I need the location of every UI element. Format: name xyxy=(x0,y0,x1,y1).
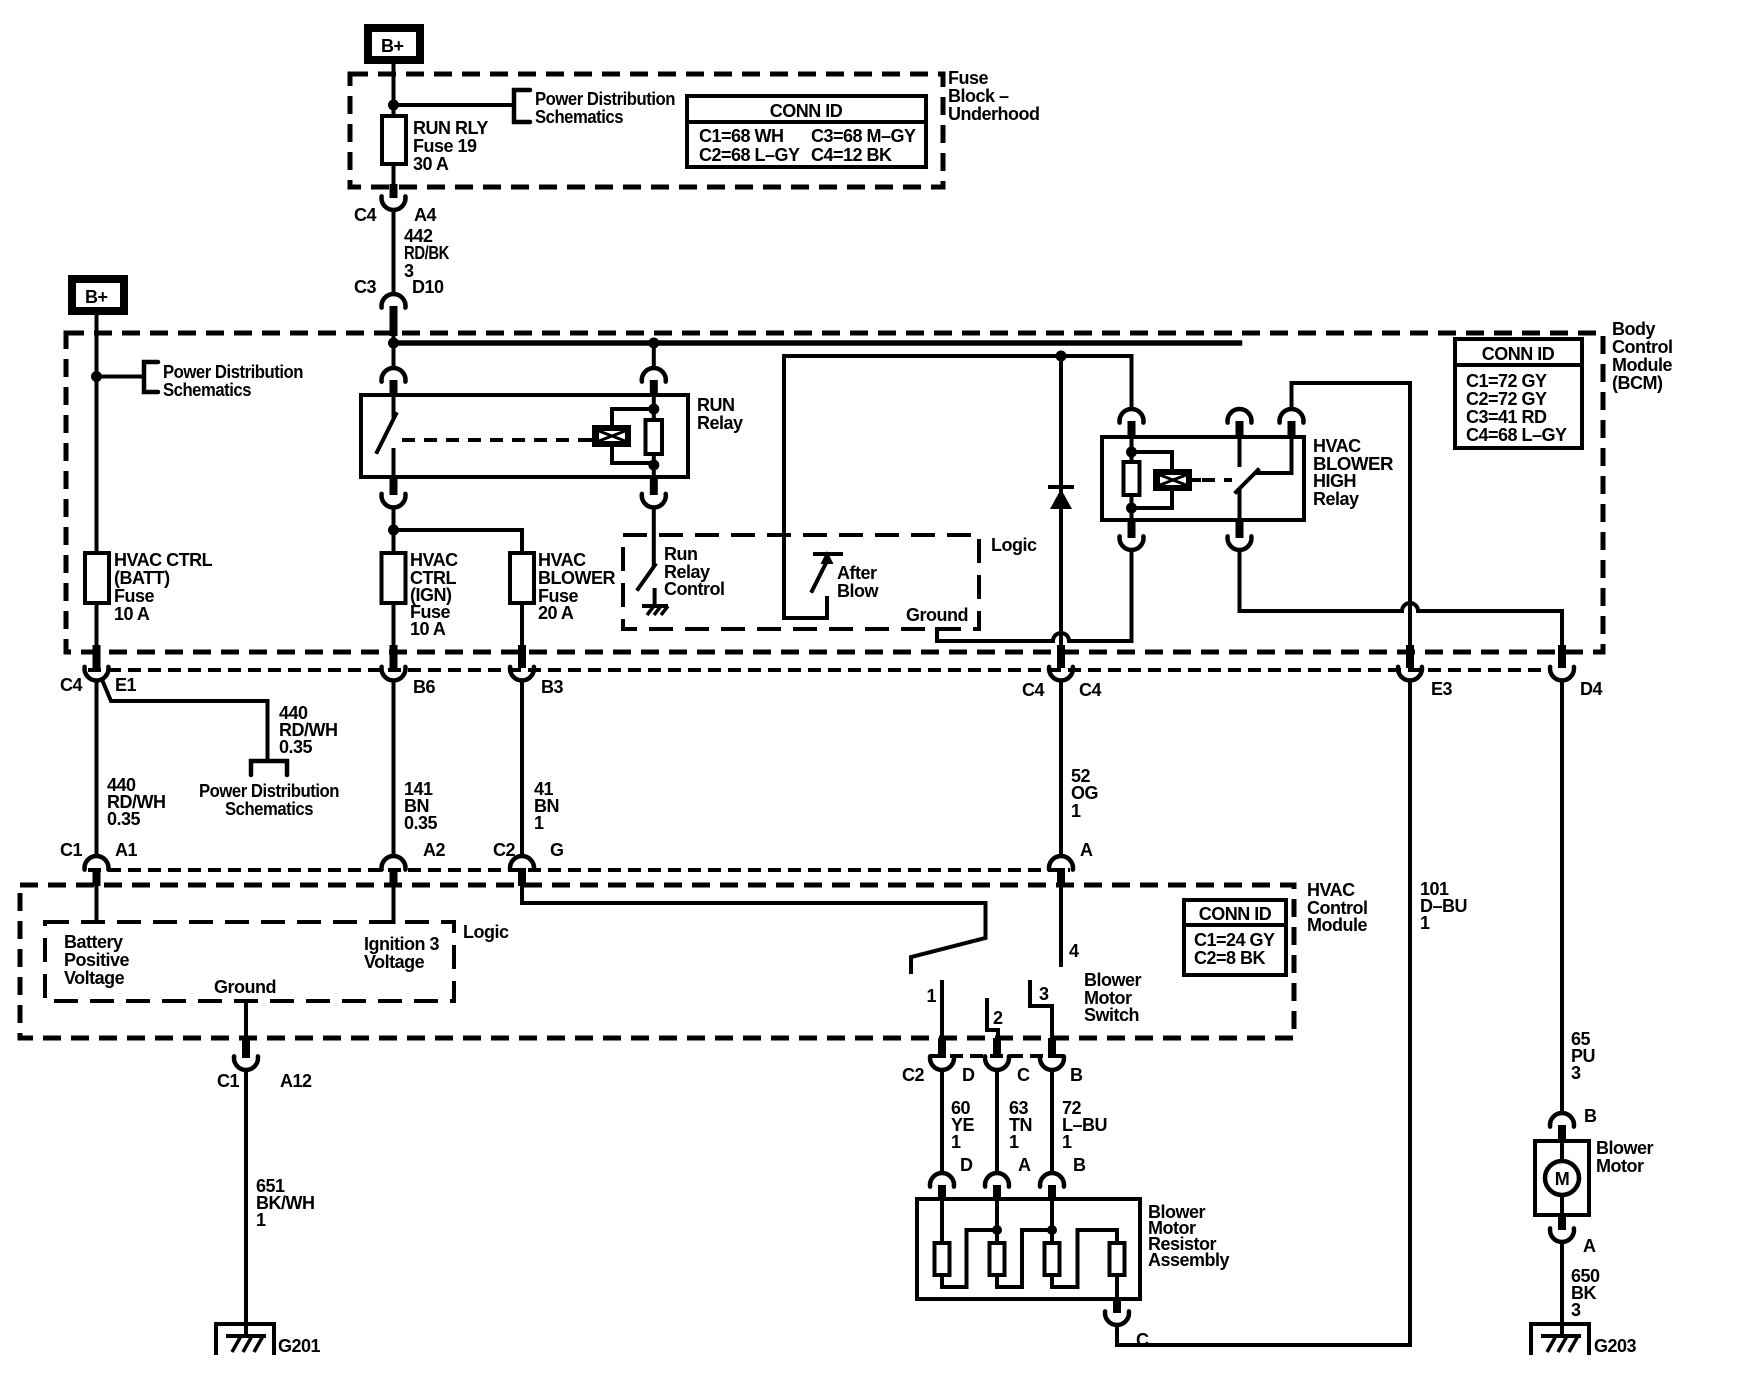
node: junction B input xyxy=(1047,1225,1057,1235)
svg-text:B3: B3 xyxy=(541,677,563,697)
svg-text:C4: C4 xyxy=(1079,680,1101,700)
svg-text:C4=68 L–GY: C4=68 L–GY xyxy=(1466,425,1567,445)
svg-text:1: 1 xyxy=(926,986,936,1006)
svg-text:G203: G203 xyxy=(1594,1336,1637,1356)
wire resistor input D xyxy=(940,1199,944,1243)
wire BLOWER fuse to B3 xyxy=(520,603,524,645)
label Run Relay Control xyxy=(664,544,724,599)
svg-text:B+: B+ xyxy=(85,287,108,307)
connector pin stub C4 (fuse block out) xyxy=(390,184,398,198)
svg-text:4: 4 xyxy=(1069,941,1079,961)
svg-text:A: A xyxy=(1080,840,1093,860)
svg-text:Fuse 19: Fuse 19 xyxy=(413,136,477,156)
fuse HVAC BLOWER 20 A xyxy=(510,553,534,603)
svg-text:C4: C4 xyxy=(1022,680,1044,700)
svg-text:Schematics: Schematics xyxy=(535,107,623,127)
Fuse Block - Underhood dashed box xyxy=(350,74,943,187)
svg-text:HVAC: HVAC xyxy=(1307,880,1355,900)
wire R2 to R3 xyxy=(997,1230,1052,1287)
svg-text:CONN ID: CONN ID xyxy=(1199,904,1272,924)
svg-text:Body: Body xyxy=(1612,319,1655,339)
svg-text:Control: Control xyxy=(1612,337,1672,357)
svg-text:(BATT): (BATT) xyxy=(114,568,170,588)
node: blower coil loop top xyxy=(1126,447,1137,458)
connector C xyxy=(993,1038,1001,1058)
wire relay switch out to D4 (with hop) xyxy=(1240,550,1563,645)
connector arc blower relay coil bottom xyxy=(1128,520,1136,538)
svg-text:Block –: Block – xyxy=(948,86,1009,106)
svg-text:C2=68 L–GY: C2=68 L–GY xyxy=(699,145,800,165)
label Ignition 3 Voltage xyxy=(364,934,439,972)
wire NO contact to E3 xyxy=(1292,383,1411,645)
svg-text:C3=68 M–GY: C3=68 M–GY xyxy=(811,126,916,146)
wire 63 TN xyxy=(995,1070,999,1173)
svg-text:B: B xyxy=(1073,1155,1086,1175)
connector B6 xyxy=(390,645,398,668)
wire RUN relay out to fuses xyxy=(392,508,396,554)
wire 4 (switch feed stub) xyxy=(1059,885,1063,965)
wire 72 L-BU xyxy=(1050,1070,1054,1173)
connector C2/D xyxy=(938,1038,946,1058)
connector arc blower relay switch bottom xyxy=(1236,520,1244,538)
connector C1/A1 xyxy=(85,856,109,870)
wire coil parallel loop xyxy=(612,409,654,463)
label Blower Motor Resistor Assembly xyxy=(1148,1202,1230,1270)
svg-text:Logic: Logic xyxy=(991,535,1037,555)
connector B3 xyxy=(518,645,526,668)
connector C3/D10 xyxy=(382,294,406,308)
svg-text:After: After xyxy=(837,563,877,583)
wire BATT fuse to E1 xyxy=(95,603,99,645)
svg-text:D: D xyxy=(962,1065,975,1085)
After Blow switch (arm with arrow) xyxy=(812,551,841,591)
svg-text:M: M xyxy=(1555,1169,1570,1189)
svg-text:1: 1 xyxy=(951,1132,961,1152)
wire 442 RD/BK 3 xyxy=(392,210,396,294)
svg-text:2: 2 xyxy=(993,1008,1003,1028)
wire 60 YE xyxy=(940,1070,944,1173)
label Fuse Block - Underhood xyxy=(948,68,1040,124)
HVAC BLOWER HIGH relay box xyxy=(1102,437,1304,520)
svg-text:C1=72 GY: C1=72 GY xyxy=(1466,371,1547,391)
svg-text:D10: D10 xyxy=(412,277,444,297)
svg-text:B: B xyxy=(1584,1106,1597,1126)
wire 650 BK to G203 xyxy=(1560,1242,1564,1336)
label After Blow xyxy=(837,563,879,601)
svg-text:G201: G201 xyxy=(278,1336,321,1356)
connector C4/A4 xyxy=(382,196,406,210)
svg-text:3: 3 xyxy=(1571,1063,1581,1083)
svg-text:CONN ID: CONN ID xyxy=(770,101,843,121)
B+ power symbol (top, fuse block feed) xyxy=(368,28,420,60)
label HVAC Control Module xyxy=(1307,880,1367,935)
connector line (switch output row) xyxy=(930,1054,1064,1058)
Body Control Module (BCM) dashed box xyxy=(66,333,1603,652)
RUN relay coil (winding symbol) xyxy=(585,425,631,447)
label Blower Motor Switch xyxy=(1084,970,1142,1025)
svg-text:Power Distribution: Power Distribution xyxy=(535,89,675,109)
node: junction IGN fuse / blower fuse xyxy=(388,525,399,536)
connector arc blower relay NO contact top xyxy=(1280,409,1304,423)
svg-text:1: 1 xyxy=(1071,801,1081,821)
connector A (motor) xyxy=(1558,1215,1566,1230)
resistor R4 xyxy=(1110,1243,1125,1275)
svg-text:HVAC CTRL: HVAC CTRL xyxy=(114,550,213,570)
svg-text:C4=12 BK: C4=12 BK xyxy=(811,145,892,165)
Blower Motor Resistor Assembly box xyxy=(917,1199,1140,1299)
connector C4/C4 (logic output) xyxy=(1057,645,1065,668)
wire bus to RUN relay switch pin xyxy=(392,343,396,368)
connector C (resistor out) xyxy=(1113,1299,1121,1313)
fuse HVAC CTRL (BATT) 10 A xyxy=(85,553,109,603)
svg-text:E3: E3 xyxy=(1431,679,1453,699)
svg-text:A2: A2 xyxy=(423,840,445,860)
wire ignition input xyxy=(392,885,396,922)
connector C4/E1 xyxy=(93,645,101,668)
svg-text:0.35: 0.35 xyxy=(107,809,141,829)
svg-text:C3: C3 xyxy=(354,277,376,297)
wire R3 to R4 xyxy=(1052,1230,1117,1287)
svg-text:HVAC: HVAC xyxy=(538,550,586,570)
connector arc blower relay coil top xyxy=(1120,409,1144,423)
wire B+ to RUN RLY fuse xyxy=(392,64,396,117)
svg-text:Blow: Blow xyxy=(837,581,879,601)
svg-text:A4: A4 xyxy=(414,205,436,225)
wire 440 RD/WH (battery) xyxy=(95,681,99,857)
fuse RUN RLY Fuse 19 30 A xyxy=(382,116,406,164)
svg-text:OG: OG xyxy=(1071,783,1098,803)
svg-text:C: C xyxy=(1136,1330,1149,1350)
blower relay mechanical link (dashed) xyxy=(1202,478,1232,482)
wire logic ground return to relay coil low side xyxy=(937,550,1132,641)
resistor (blower relay suppression) xyxy=(1124,462,1140,495)
wire 52 OG (logic to switch) xyxy=(1059,681,1063,857)
svg-text:0.35: 0.35 xyxy=(279,737,313,757)
svg-text:B: B xyxy=(1070,1065,1083,1085)
svg-text:Voltage: Voltage xyxy=(64,968,125,988)
resistor R1 xyxy=(935,1243,950,1275)
svg-text:20 A: 20 A xyxy=(538,603,574,623)
svg-text:C4: C4 xyxy=(60,675,82,695)
svg-text:RUN RLY: RUN RLY xyxy=(413,118,488,138)
CONN ID table (HVAC module) xyxy=(1184,900,1286,975)
wire fuse to connector C4 xyxy=(392,164,396,184)
blower motor switch contact 2 xyxy=(987,1000,998,1038)
svg-text:Power Distribution: Power Distribution xyxy=(163,362,303,382)
resistor R2 xyxy=(990,1243,1005,1275)
svg-text:RUN: RUN xyxy=(697,395,735,415)
svg-text:B+: B+ xyxy=(381,36,404,56)
svg-text:C2: C2 xyxy=(902,1065,924,1085)
label Power Distribution Schematics (BCM) xyxy=(163,362,303,400)
blower motor switch contact 1 xyxy=(940,982,944,1038)
svg-text:B6: B6 xyxy=(413,677,435,697)
svg-text:1: 1 xyxy=(1420,913,1430,933)
wire coil feed xyxy=(652,396,656,477)
wire RUN relay coil to run relay control switch xyxy=(652,508,656,566)
off-page bracket (E1 branch) xyxy=(251,761,287,775)
fuse HVAC CTRL (IGN) 10 A xyxy=(382,553,406,603)
svg-text:Module: Module xyxy=(1612,355,1672,375)
svg-text:Ground: Ground xyxy=(906,605,968,625)
svg-text:1: 1 xyxy=(1062,1132,1072,1152)
node: junction A input xyxy=(992,1225,1002,1235)
svg-text:C1=68 WH: C1=68 WH xyxy=(699,126,784,146)
connector B (motor) xyxy=(1550,1113,1574,1127)
svg-text:A12: A12 xyxy=(280,1071,312,1091)
svg-text:1: 1 xyxy=(256,1210,266,1230)
node: blower coil loop bottom xyxy=(1126,503,1137,514)
svg-text:C1: C1 xyxy=(60,840,82,860)
svg-text:Control: Control xyxy=(664,579,724,599)
svg-text:Fuse: Fuse xyxy=(114,586,155,606)
svg-text:A: A xyxy=(1583,1236,1596,1256)
svg-text:Blower: Blower xyxy=(1084,970,1142,990)
connector C2/G xyxy=(510,856,534,870)
label Battery Positive Voltage xyxy=(64,932,130,988)
svg-text:RD/BK: RD/BK xyxy=(404,243,449,263)
svg-text:C3=41 RD: C3=41 RD xyxy=(1466,407,1547,427)
wire E1 branch to power distribution xyxy=(103,682,268,759)
connector arc RUN relay switch top xyxy=(382,368,406,382)
label Body Control Module (BCM) xyxy=(1612,319,1672,393)
connector arc blower relay switch top xyxy=(1228,409,1252,423)
wire battery input xyxy=(95,885,99,922)
label Power Distribution Schematics (E1 branch) xyxy=(199,781,339,819)
svg-text:Blower: Blower xyxy=(1596,1138,1654,1158)
node: junction B+ branch xyxy=(388,100,399,111)
svg-text:30 A: 30 A xyxy=(413,154,449,174)
svg-text:Voltage: Voltage xyxy=(364,952,425,972)
svg-text:D: D xyxy=(960,1155,973,1175)
wire diode branch to C4 output xyxy=(1059,356,1063,645)
svg-text:Run: Run xyxy=(664,544,698,564)
logic dashed box (HVAC module) xyxy=(45,922,454,1001)
svg-text:Underhood: Underhood xyxy=(948,104,1040,124)
wire resistor input B xyxy=(1050,1199,1054,1243)
svg-text:3: 3 xyxy=(1039,984,1049,1004)
svg-text:Power Distribution: Power Distribution xyxy=(199,781,339,801)
wire branch to HVAC BLOWER fuse xyxy=(394,530,523,553)
connector line (BCM bottom row) xyxy=(88,668,1548,672)
blower motor switch contact 3 xyxy=(1030,982,1052,1038)
svg-text:Module: Module xyxy=(1307,915,1367,935)
RUN relay switch xyxy=(377,395,396,477)
svg-text:E1: E1 xyxy=(115,675,137,695)
ground G203 xyxy=(1531,1324,1637,1356)
svg-text:CONN ID: CONN ID xyxy=(1482,344,1555,364)
wire After Blow switch loop xyxy=(784,356,827,618)
wire 65 PU (D4 to motor) xyxy=(1560,681,1564,1114)
connector arc RUN relay coil bottom xyxy=(650,477,658,495)
Run Relay Control switch xyxy=(638,565,655,606)
svg-text:10 A: 10 A xyxy=(114,604,150,624)
ground G201 xyxy=(216,1324,321,1356)
svg-text:HVAC: HVAC xyxy=(1313,436,1361,456)
connector arc RUN relay switch bottom xyxy=(390,477,398,495)
svg-text:D4: D4 xyxy=(1580,679,1602,699)
svg-text:Ground: Ground xyxy=(214,977,276,997)
svg-text:0.35: 0.35 xyxy=(404,813,438,833)
connector line (HVAC module top row) xyxy=(88,868,1070,872)
svg-text:C2=8 BK: C2=8 BK xyxy=(1194,948,1266,968)
connector arc RUN relay coil top xyxy=(642,368,666,382)
svg-text:Schematics: Schematics xyxy=(225,799,313,819)
wire to power distribution reference (BCM) xyxy=(97,375,145,379)
wire 141 BN (ignition) xyxy=(392,681,396,857)
blower relay switch xyxy=(1236,437,1292,520)
label RUN Relay xyxy=(697,395,743,433)
wire IGN fuse to B6 xyxy=(392,603,396,645)
svg-text:Ignition 3: Ignition 3 xyxy=(364,934,439,954)
svg-text:Motor: Motor xyxy=(1596,1156,1644,1176)
svg-text:BLOWER: BLOWER xyxy=(538,568,615,588)
node: bus junction at RUN relay switch xyxy=(388,338,399,349)
wire 651 BK/WH to G201 xyxy=(244,1070,248,1336)
svg-text:C4: C4 xyxy=(354,205,376,225)
HVAC Control Module dashed box xyxy=(20,885,1294,1038)
svg-text:A: A xyxy=(1018,1155,1031,1175)
off-page reference bracket (fuse block) xyxy=(514,90,530,122)
svg-text:C2: C2 xyxy=(493,840,515,860)
svg-text:A1: A1 xyxy=(115,840,137,860)
CONN ID table (fuse block) xyxy=(687,96,926,167)
connector A2 xyxy=(382,856,406,870)
off-page reference bracket (BCM) xyxy=(144,362,158,392)
wire B+ to HVAC CTRL BATT fuse xyxy=(95,315,99,553)
svg-text:C: C xyxy=(1017,1065,1030,1085)
svg-text:1: 1 xyxy=(534,813,544,833)
svg-text:C1: C1 xyxy=(217,1071,239,1091)
node: junction BCM B+ branch xyxy=(91,371,102,382)
svg-text:1: 1 xyxy=(1009,1132,1019,1152)
wire coil parallel loop (blower relay) xyxy=(1132,452,1173,508)
label Power Distribution Schematics (fuse block) xyxy=(535,89,675,127)
svg-text:Assembly: Assembly xyxy=(1148,1250,1230,1270)
coil (blower relay winding symbol) xyxy=(1153,469,1199,491)
wire 41 BN (blower fuse out) xyxy=(520,681,524,857)
wire bus to RUN relay coil pin xyxy=(652,343,656,368)
svg-text:Fuse: Fuse xyxy=(948,68,989,88)
svg-text:Switch: Switch xyxy=(1084,1005,1139,1025)
wire R4 out xyxy=(1115,1275,1119,1299)
connector D4 xyxy=(1558,645,1566,668)
connector A (switch feed) xyxy=(1049,856,1073,870)
BCM logic dashed box (Run Relay Control / After Blow / Ground) xyxy=(623,535,979,629)
svg-text:10 A: 10 A xyxy=(410,619,446,639)
blower motor M1 xyxy=(1535,1141,1589,1215)
resistor R3 xyxy=(1045,1243,1060,1275)
wire to power distribution reference xyxy=(394,103,515,107)
wire ground out of logic xyxy=(244,1001,248,1038)
wire 101 D-BU (E3 to resistor C) xyxy=(1117,681,1410,1346)
RUN relay mechanical link (dashed) xyxy=(402,438,586,442)
wire relay coil feed xyxy=(1130,437,1134,520)
svg-text:Battery: Battery xyxy=(64,932,123,952)
svg-text:3: 3 xyxy=(1571,1300,1581,1320)
svg-text:Logic: Logic xyxy=(463,922,509,942)
node: coil loop top xyxy=(648,404,659,415)
wire main BCM bus from C3 input xyxy=(392,335,396,343)
wire resistor input A xyxy=(995,1199,999,1243)
svg-text:HIGH: HIGH xyxy=(1313,471,1356,491)
CONN ID table (BCM) xyxy=(1455,339,1582,448)
wire logic to HVAC BLOWER HIGH relay coil xyxy=(784,356,1132,409)
svg-text:HVAC: HVAC xyxy=(410,550,458,570)
node: coil loop bottom xyxy=(648,460,659,471)
B+ power symbol (BCM feed) xyxy=(72,279,124,311)
svg-text:Schematics: Schematics xyxy=(163,380,251,400)
svg-text:C1=24 GY: C1=24 GY xyxy=(1194,930,1275,950)
connector E3 xyxy=(1406,645,1414,668)
wire R1 to R2 xyxy=(942,1230,997,1287)
blower motor switch wiper xyxy=(522,885,986,972)
node: junction diode feed xyxy=(1056,351,1067,362)
node: bus junction at RUN relay coil xyxy=(648,338,659,349)
resistor (RUN relay suppression) xyxy=(646,420,663,454)
svg-text:C2=72 GY: C2=72 GY xyxy=(1466,389,1547,409)
svg-text:Relay: Relay xyxy=(697,413,743,433)
label Blower Motor xyxy=(1596,1138,1654,1176)
svg-text:Positive: Positive xyxy=(64,950,130,970)
connector B xyxy=(1048,1038,1056,1058)
label HVAC BLOWER HIGH Relay xyxy=(1313,436,1394,509)
ground (run relay control) xyxy=(644,606,668,615)
svg-text:Relay: Relay xyxy=(1313,489,1359,509)
connector pin stub D10 (into BCM) xyxy=(390,306,398,336)
svg-text:(BCM): (BCM) xyxy=(1612,373,1663,393)
connector C1/A12 xyxy=(242,1038,250,1058)
svg-text:G: G xyxy=(550,840,564,860)
diode (blower relay clamp) xyxy=(1050,487,1072,509)
RUN relay box xyxy=(361,395,688,477)
